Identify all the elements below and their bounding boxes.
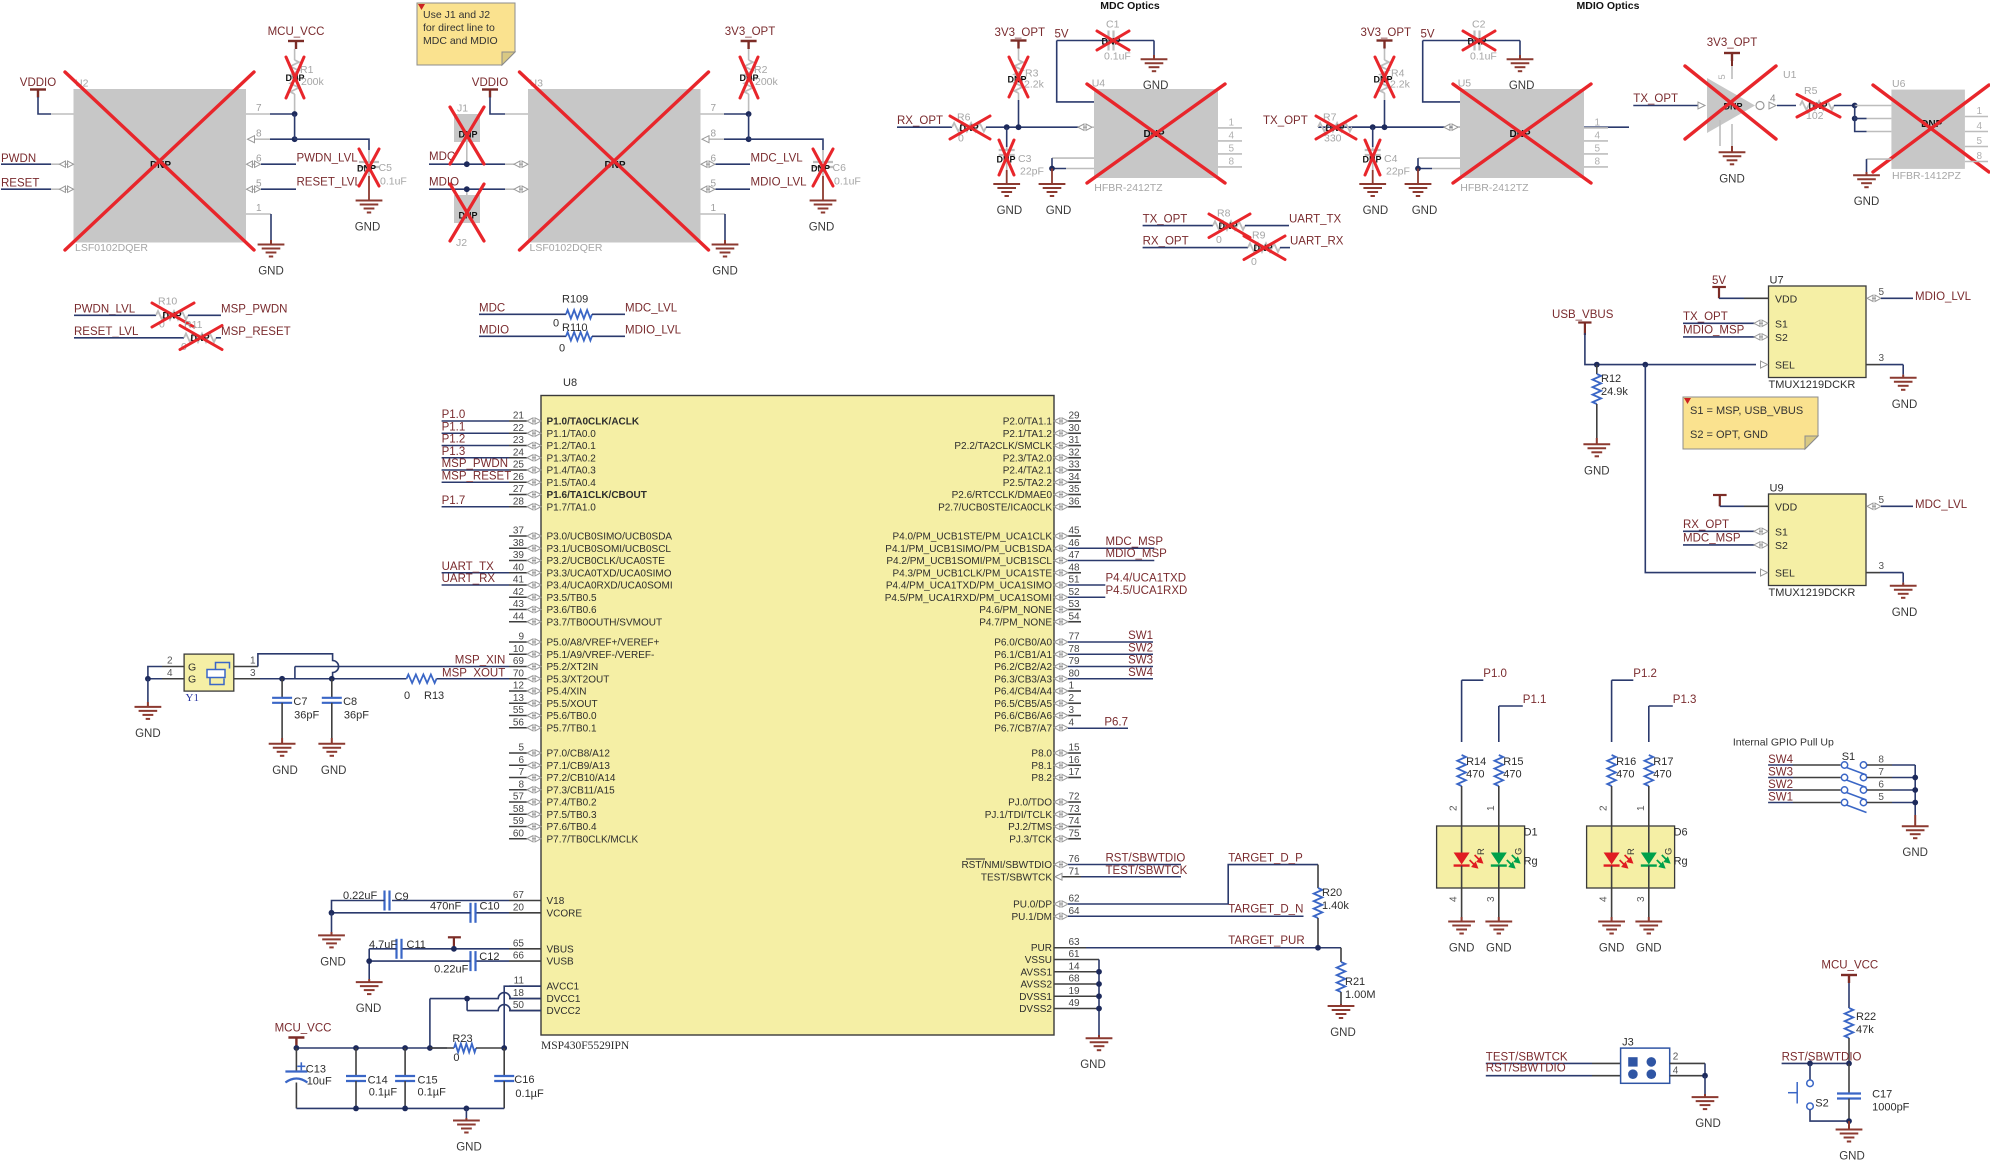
ground below S2/C17 xyxy=(1848,1121,1850,1129)
svg-text:UART_RX: UART_RX xyxy=(1290,236,1344,248)
svg-text:45: 45 xyxy=(1069,526,1081,537)
svg-text:26: 26 xyxy=(513,472,525,483)
svg-text:MDIO_MSP: MDIO_MSP xyxy=(1106,548,1168,560)
resistor R2 200k (DNP) xyxy=(748,49,750,60)
net label MDC_MSP (pin 46) xyxy=(1068,547,1154,549)
ground below C4 xyxy=(1372,170,1374,184)
svg-text:R15: R15 xyxy=(1503,756,1523,768)
svg-text:2: 2 xyxy=(167,656,173,667)
pin 49 DVSS2 of U8 xyxy=(1054,1008,1099,1010)
svg-text:MCU_VCC: MCU_VCC xyxy=(275,1023,332,1035)
pin 59 P7.6/TB0.4 of U8 xyxy=(509,826,527,828)
svg-text:MSP_PWDN: MSP_PWDN xyxy=(221,304,287,316)
wire AVCC1 to vertical rail xyxy=(504,986,541,1048)
svg-text:R13: R13 xyxy=(424,690,444,702)
svg-text:0.22uF: 0.22uF xyxy=(434,964,469,976)
svg-text:SEL: SEL xyxy=(1775,568,1795,580)
pin 68 AVSS2 of U8 xyxy=(1054,983,1099,985)
svg-text:57: 57 xyxy=(513,792,525,803)
net label P1.3 / wire xyxy=(1649,705,1673,707)
svg-text:32: 32 xyxy=(1069,447,1081,458)
svg-text:C8: C8 xyxy=(343,696,357,708)
svg-text:R110: R110 xyxy=(562,322,587,334)
svg-text:P7.2/CB10/A14: P7.2/CB10/A14 xyxy=(547,773,616,784)
svg-text:RST/SBWTDIO: RST/SBWTDIO xyxy=(1106,853,1186,865)
junction pin8 net xyxy=(292,136,298,142)
DNP cross over C1 xyxy=(1097,31,1129,50)
DNP cross over U3 xyxy=(520,72,709,250)
pin 22 P1.1/TA0.0 of U8 xyxy=(509,432,527,434)
pin 56 P5.7/TB0.1 of U8 xyxy=(509,727,527,729)
pin 55 P5.6/TB0.0 of U8 xyxy=(509,715,527,717)
svg-text:P1.2: P1.2 xyxy=(1633,668,1657,680)
resistor R20 1.40k xyxy=(1317,865,1319,888)
svg-text:15: 15 xyxy=(1069,743,1081,754)
svg-text:5: 5 xyxy=(1594,143,1600,154)
svg-text:GND: GND xyxy=(1695,1118,1721,1130)
svg-text:GND: GND xyxy=(1719,173,1745,185)
wire RX_OPT to S1 xyxy=(1683,530,1755,532)
svg-text:MSP_RESET: MSP_RESET xyxy=(221,326,291,338)
junction Y1 ground branch xyxy=(145,676,151,682)
svg-text:5: 5 xyxy=(1878,792,1884,803)
wire MDIO_MSP to S2 xyxy=(1683,336,1755,338)
DNP cross over R1 xyxy=(286,57,304,98)
pin 34 P2.5/TA2.2 of U8 xyxy=(1068,481,1081,483)
ground below Y1 xyxy=(147,679,149,702)
svg-text:GND: GND xyxy=(258,266,284,278)
resistor R5 102 (DNP) xyxy=(1800,101,1834,110)
right pins 1/4/5/8 of U5 xyxy=(1584,127,1608,129)
svg-text:P3.1/UCB0SOMI/UCB0SCL: P3.1/UCB0SOMI/UCB0SCL xyxy=(547,544,672,555)
svg-text:MDC Optics: MDC Optics xyxy=(1100,0,1160,12)
svg-text:SW4: SW4 xyxy=(1128,667,1154,679)
svg-text:GND: GND xyxy=(1584,465,1610,477)
svg-text:P3.0/UCB0SIMO/UCB0SDA: P3.0/UCB0SIMO/UCB0SDA xyxy=(547,532,673,543)
pin 38 P3.1/UCB0SOMI/UCB0SCL of U8 xyxy=(509,547,527,549)
optical receiver U4 HFBR-2412TZ (DNP) xyxy=(1094,89,1218,178)
svg-text:22pF: 22pF xyxy=(1020,166,1044,178)
svg-text:S2: S2 xyxy=(1815,1098,1828,1110)
net label MSP_PWDN / wire to U8 xyxy=(442,469,509,471)
DNP cross over R9 xyxy=(1244,236,1285,260)
pin glyph RESET (U2 A2) xyxy=(60,186,74,192)
DNP cross over C5 xyxy=(359,149,379,186)
wire power flag to VDD (U9) xyxy=(1720,505,1744,507)
svg-text:C3: C3 xyxy=(1018,153,1032,165)
svg-text:P1.6/TA1CLK/CBOUT: P1.6/TA1CLK/CBOUT xyxy=(547,490,647,501)
junction cap branch xyxy=(1004,124,1010,130)
svg-text:470: 470 xyxy=(1653,769,1671,781)
wire RST/SBWTDIO to J3 pin 3 xyxy=(1486,1075,1592,1077)
svg-text:GND: GND xyxy=(456,1142,482,1154)
wire TX_OPT to U1 xyxy=(1633,105,1699,107)
svg-text:SW2: SW2 xyxy=(1128,642,1153,654)
svg-text:HFBR-2412TZ: HFBR-2412TZ xyxy=(1094,182,1163,194)
svg-text:PWDN_LVL: PWDN_LVL xyxy=(74,304,136,316)
pin 79 P6.2/CB2/A2 of U8 xyxy=(1054,663,1068,669)
bare power flag (U9 VDD) xyxy=(1713,495,1727,506)
svg-text:U8: U8 xyxy=(563,377,577,389)
pin 76 RST/NMI/SBWTDIO of U8 xyxy=(1054,861,1068,867)
pin 26 P1.5/TA0.4 of U8 xyxy=(509,481,527,483)
svg-text:13: 13 xyxy=(513,693,525,704)
svg-text:P7.7/TB0CLK/MCLK: P7.7/TB0CLK/MCLK xyxy=(547,834,639,845)
wire junctions to optic input xyxy=(1007,126,1079,128)
capacitor C7 36pF xyxy=(281,679,283,698)
svg-text:P3.5/TB0.5: P3.5/TB0.5 xyxy=(547,593,597,604)
svg-text:75: 75 xyxy=(1069,828,1081,839)
pin 64 PU.1/DM of U8 xyxy=(1054,913,1068,919)
junction U3 pin7/R2 xyxy=(746,111,752,117)
wire 3V3_OPT to U1 power pin xyxy=(1731,61,1733,66)
svg-text:GND: GND xyxy=(1080,1059,1106,1071)
svg-text:1.00M: 1.00M xyxy=(1345,989,1376,1001)
svg-text:0.1uF: 0.1uF xyxy=(834,176,861,188)
net label MSP_XIN / wire xyxy=(295,666,509,668)
svg-text:1: 1 xyxy=(1594,117,1600,128)
svg-text:MDC_LVL: MDC_LVL xyxy=(625,303,678,315)
net label SW1 / wire from U8 xyxy=(1068,641,1153,643)
pin 11 AVCC1 of U8 xyxy=(509,985,541,987)
svg-text:72: 72 xyxy=(1069,792,1081,803)
pin 70 P5.3/XT2OUT of U8 xyxy=(509,678,527,680)
svg-text:14: 14 xyxy=(1069,961,1081,972)
capacitor C9 0.22uF on V18 xyxy=(392,900,509,902)
net label MDIO_MSP (pin 47) xyxy=(1068,560,1154,562)
ground below R21 xyxy=(1340,1004,1342,1006)
resistor R12 24.9k xyxy=(1596,365,1598,374)
svg-text:2: 2 xyxy=(1599,805,1610,811)
note: Use J1 and J2 for direct line to MDC and MDIO xyxy=(417,3,515,65)
junction U3 pin8 net xyxy=(746,136,752,142)
svg-text:7: 7 xyxy=(710,103,716,114)
jumper J2 (DNP) xyxy=(454,195,480,223)
svg-text:GND: GND xyxy=(809,222,835,234)
svg-text:P6.4/CB4/A4: P6.4/CB4/A4 xyxy=(994,687,1052,698)
pin 42 P3.5/TB0.5 of U8 xyxy=(509,596,527,598)
svg-text:78: 78 xyxy=(1069,644,1081,655)
wire pin7 to pin8 junction xyxy=(294,114,296,139)
svg-text:P7.3/CB11/A15: P7.3/CB11/A15 xyxy=(547,785,616,796)
svg-text:RST/SBWTDIO: RST/SBWTDIO xyxy=(1486,1063,1566,1075)
pin 36 P2.7/UCB0STE/ICA0CLK of U8 xyxy=(1068,506,1081,508)
VSS ground bus xyxy=(1098,960,1100,1036)
ground below U4 xyxy=(1039,184,1066,196)
pin 57 P7.4/TB0.2 of U8 xyxy=(509,801,527,803)
svg-text:74: 74 xyxy=(1069,816,1081,827)
pin 4 P6.7/CB7/A7 of U8 xyxy=(1054,725,1068,731)
svg-text:P7.5/TB0.3: P7.5/TB0.3 xyxy=(547,810,597,821)
svg-text:P6.7/CB7/A7: P6.7/CB7/A7 xyxy=(994,723,1052,734)
pin 33 P2.4/TA2.1 of U8 xyxy=(1068,469,1081,471)
net label P1.7 / wire to U8 xyxy=(442,506,509,508)
svg-text:36pF: 36pF xyxy=(294,710,319,722)
wire junctions to optic input xyxy=(1373,126,1445,128)
svg-text:P2.7/UCB0STE/ICA0CLK: P2.7/UCB0STE/ICA0CLK xyxy=(938,502,1052,513)
svg-text:4: 4 xyxy=(1069,717,1075,728)
svg-text:4: 4 xyxy=(1599,896,1610,902)
optical transmitter U6 HFBR-1412PZ (DNP) xyxy=(1891,90,1965,169)
wire U3 pin8 to C6 xyxy=(749,139,823,150)
ground below C1 xyxy=(1153,41,1155,56)
svg-text:P4.4/PM_UCA1TXD/PM_UCA1SIMO: P4.4/PM_UCA1TXD/PM_UCA1SIMO xyxy=(886,581,1052,592)
svg-text:23: 23 xyxy=(513,435,525,446)
svg-text:C15: C15 xyxy=(418,1075,438,1087)
svg-text:P4.6/PM_NONE: P4.6/PM_NONE xyxy=(979,605,1052,616)
pin 8 P7.3/CB11/A15 of U8 xyxy=(509,789,527,791)
svg-text:S2: S2 xyxy=(1775,332,1788,344)
DNP cross over R3 xyxy=(1009,57,1028,97)
svg-text:73: 73 xyxy=(1069,804,1081,815)
pin 19 DVSS1 of U8 xyxy=(1054,995,1099,997)
svg-text:P2.0/TA1.1: P2.0/TA1.1 xyxy=(1003,417,1053,428)
capacitor C8 36pF xyxy=(331,679,333,698)
DNP cross over U4 xyxy=(1087,84,1225,183)
svg-text:Rg: Rg xyxy=(1674,856,1688,868)
wire USB_VBUS down to SEL rail xyxy=(1585,333,1756,365)
svg-text:56: 56 xyxy=(513,717,525,728)
svg-text:R17: R17 xyxy=(1653,756,1673,768)
svg-text:P3.3/UCA0TXD/UCA0SIMO: P3.3/UCA0TXD/UCA0SIMO xyxy=(547,568,672,579)
junction C7 xyxy=(279,676,285,682)
svg-text:TEST/SBWTCK: TEST/SBWTCK xyxy=(981,872,1052,883)
pin 58 P7.5/TB0.3 of U8 xyxy=(509,813,527,815)
svg-text:P6.0/CB0/A0: P6.0/CB0/A0 xyxy=(994,638,1052,649)
svg-text:GND: GND xyxy=(272,765,298,777)
svg-text:R22: R22 xyxy=(1856,1011,1876,1023)
capacitor C15 0.1uF xyxy=(404,1048,406,1076)
junction pullup branch xyxy=(1016,124,1022,130)
svg-text:P6.6/CB6/A6: P6.6/CB6/A6 xyxy=(994,711,1052,722)
svg-text:MDIO: MDIO xyxy=(429,177,459,189)
net TARGET_D_N wire from PU.1/DM xyxy=(1068,915,1304,917)
svg-text:UART_TX: UART_TX xyxy=(1289,214,1342,226)
svg-text:P3.2/UCB0CLK/UCA0STE: P3.2/UCB0CLK/UCA0STE xyxy=(547,556,666,567)
capacitor C10 470nF on VCORE xyxy=(477,912,510,914)
svg-text:J1: J1 xyxy=(457,103,468,115)
svg-text:R5: R5 xyxy=(1804,85,1818,97)
wire J3 pins to ground xyxy=(1704,1063,1706,1075)
svg-text:5: 5 xyxy=(518,743,524,754)
pin 28 P1.7/TA1.0 of U8 xyxy=(509,506,527,508)
svg-text:P7.6/TB0.4: P7.6/TB0.4 xyxy=(547,822,597,833)
ground below S1 xyxy=(1914,815,1916,826)
svg-text:GND: GND xyxy=(1892,399,1918,411)
svg-text:MSP_RESET: MSP_RESET xyxy=(442,470,512,482)
red LED element of D6 xyxy=(1611,826,1613,853)
wire RST/SBWTDIO to R22/C17 xyxy=(1782,1062,1849,1064)
svg-text:0: 0 xyxy=(453,1052,459,1064)
pin 44 P3.7/TB0OUTH/SVMOUT of U8 xyxy=(509,621,527,623)
svg-text:P3.6/TB0.6: P3.6/TB0.6 xyxy=(547,605,597,616)
svg-text:R: R xyxy=(1476,848,1487,855)
net label SW3 / wire from U8 xyxy=(1068,666,1153,668)
net label P1.3 / wire to U8 xyxy=(442,457,509,459)
DNP cross over U6 xyxy=(1873,85,1989,172)
svg-text:P8.0: P8.0 xyxy=(1031,749,1052,760)
svg-text:C14: C14 xyxy=(368,1075,388,1087)
svg-text:80: 80 xyxy=(1069,668,1081,679)
pin 48 P4.3/PM_UCB1CLK/PM_UCA1STE of U8 xyxy=(1068,572,1081,574)
net label P1.0 / wire xyxy=(1462,679,1484,681)
pin 30 P2.1/TA1.2 of U8 xyxy=(1068,432,1081,434)
svg-text:33: 33 xyxy=(1069,460,1081,471)
pin 67 V18 of U8 xyxy=(509,900,541,902)
svg-text:GND: GND xyxy=(1412,205,1438,217)
svg-text:25: 25 xyxy=(513,460,525,471)
DNP cross over J1 xyxy=(450,107,484,164)
svg-text:54: 54 xyxy=(1069,611,1081,622)
pin 17 P8.2 of U8 xyxy=(1068,777,1081,779)
DNP cross over R6 xyxy=(950,116,990,139)
right pins 1/4/5/8 of U4 xyxy=(1218,127,1242,129)
svg-text:P1.1: P1.1 xyxy=(442,421,466,433)
resistor R22 47k xyxy=(1845,1008,1854,1038)
wire 5V to cap and U-power pin xyxy=(1057,40,1107,42)
pin 29 P2.0/TA1.1 of U8 xyxy=(1068,420,1081,422)
pin 74 PJ.2/TMS of U8 xyxy=(1068,826,1081,828)
net label P6.7 / wire from U8 xyxy=(1068,727,1128,729)
svg-text:1: 1 xyxy=(710,203,716,214)
wire TEST/SBWTCK to J3 pin 1 xyxy=(1486,1062,1592,1064)
svg-text:P4.5/UCA1RXD: P4.5/UCA1RXD xyxy=(1106,585,1188,597)
pin glyph optic input xyxy=(1444,124,1458,130)
svg-text:55: 55 xyxy=(513,705,525,716)
svg-text:5V: 5V xyxy=(1420,29,1434,41)
wire U3 pin7 to pin8 junction xyxy=(748,114,750,139)
svg-text:470: 470 xyxy=(1503,769,1521,781)
svg-text:U9: U9 xyxy=(1770,483,1784,495)
junction DVCC2 riser on DVCC1 wire xyxy=(464,996,470,1002)
svg-text:30: 30 xyxy=(1069,423,1081,434)
pin 31 P2.2/TA2CLK/SMCLK of U8 xyxy=(1068,445,1081,447)
svg-text:RESET_LVL: RESET_LVL xyxy=(297,177,362,189)
push button S2 xyxy=(1809,1063,1811,1079)
pin 73 PJ.1/TDI/TCLK of U8 xyxy=(1068,813,1081,815)
svg-text:GND: GND xyxy=(712,266,738,278)
svg-text:P1.0/TA0CLK/ACLK: P1.0/TA0CLK/ACLK xyxy=(547,417,640,428)
svg-text:470nF: 470nF xyxy=(430,901,461,913)
svg-text:TMUX1219DCKR: TMUX1219DCKR xyxy=(1769,379,1856,391)
svg-text:3: 3 xyxy=(1636,896,1647,902)
ground below C2 xyxy=(1519,41,1521,56)
svg-text:42: 42 xyxy=(513,587,525,598)
main MCU_VCC rail xyxy=(295,1046,297,1049)
svg-text:S1 = MSP, USB_VBUS: S1 = MSP, USB_VBUS xyxy=(1690,405,1803,417)
wire DVCC2 with hop over AVCC rail xyxy=(467,1005,541,1011)
ground below U1 xyxy=(1719,152,1746,164)
svg-text:4: 4 xyxy=(1594,130,1600,141)
svg-text:59: 59 xyxy=(513,816,525,827)
svg-text:1: 1 xyxy=(256,203,262,214)
net label UART_TX / wire to U8 xyxy=(442,572,509,574)
svg-text:GND: GND xyxy=(1892,607,1918,619)
DNP cross over J2 xyxy=(450,184,484,241)
pin 13 P5.5/XOUT of U8 xyxy=(509,702,527,704)
dual LED D6 xyxy=(1587,826,1675,888)
svg-text:22pF: 22pF xyxy=(1386,166,1410,178)
svg-text:16: 16 xyxy=(1069,755,1081,766)
svg-text:C5: C5 xyxy=(379,162,393,174)
svg-text:MSP_XOUT: MSP_XOUT xyxy=(442,668,505,680)
svg-text:5V: 5V xyxy=(1054,29,1068,41)
ground below U7 pin 3 xyxy=(1890,378,1917,390)
wire VDDIO to U3 pin xyxy=(490,97,505,114)
svg-text:UART_TX: UART_TX xyxy=(442,561,495,573)
net TARGET_D_P wire from PU.0/DP xyxy=(1068,865,1318,904)
svg-text:P8.2: P8.2 xyxy=(1031,773,1052,784)
resistor R21 1.00M xyxy=(1340,948,1342,962)
pin 5 P7.0/CB8/A12 of U8 xyxy=(509,752,527,754)
capacitor C11 4.7uF on VBUS xyxy=(403,948,510,950)
net label UART_RX / wire to U8 xyxy=(442,584,509,586)
svg-text:MDIO_LVL: MDIO_LVL xyxy=(1915,291,1972,303)
svg-text:P4.4/UCA1TXD: P4.4/UCA1TXD xyxy=(1106,573,1187,585)
pin 77 P6.0/CB0/A0 of U8 xyxy=(1054,639,1068,645)
svg-text:76: 76 xyxy=(1069,854,1081,865)
svg-text:24.9k: 24.9k xyxy=(1601,386,1628,398)
wire Y1 pin3 row with C7/C8 junctions xyxy=(260,678,407,680)
svg-text:1: 1 xyxy=(1069,681,1075,692)
svg-text:2.2k: 2.2k xyxy=(1024,79,1045,91)
svg-text:R: R xyxy=(1626,848,1637,855)
optical receiver U5 HFBR-2412TZ (DNP) xyxy=(1460,89,1584,178)
svg-text:P7.0/CB8/A12: P7.0/CB8/A12 xyxy=(547,749,611,760)
svg-text:GND: GND xyxy=(1449,943,1475,955)
svg-text:GND: GND xyxy=(1330,1027,1356,1039)
wire MDIO xyxy=(429,188,505,190)
svg-text:7: 7 xyxy=(1878,767,1884,778)
svg-text:6: 6 xyxy=(518,755,524,766)
svg-text:DVCC1: DVCC1 xyxy=(547,994,581,1005)
svg-text:VDD: VDD xyxy=(1775,501,1798,513)
svg-text:1: 1 xyxy=(1636,805,1647,811)
capacitor C1 0.1uF (DNP) xyxy=(1109,31,1114,51)
net TARGET_PUR wire from PUR pin xyxy=(1086,947,1341,949)
svg-text:C11: C11 xyxy=(407,939,426,951)
dual LED D1 xyxy=(1437,826,1525,888)
svg-text:C16: C16 xyxy=(514,1074,534,1086)
svg-text:MDIO: MDIO xyxy=(479,325,509,337)
ground below C11/C12 xyxy=(368,979,370,982)
svg-text:P6.1/CB1/A1: P6.1/CB1/A1 xyxy=(994,650,1052,661)
input glyph U7 SEL xyxy=(1761,361,1768,368)
junction U9 SEL branch xyxy=(1642,362,1648,368)
svg-text:RST/NMI/SBWTDIO: RST/NMI/SBWTDIO xyxy=(961,860,1052,871)
junction MDC / J1 xyxy=(464,161,470,167)
junction U6 input row2 xyxy=(1852,116,1858,122)
resistor R7 330 (DNP) xyxy=(1318,123,1352,132)
svg-text:RESET_LVL: RESET_LVL xyxy=(74,326,139,338)
pin glyph PWDN (U2 A1) xyxy=(60,161,74,167)
pin 15 P8.0 of U8 xyxy=(1068,752,1081,754)
capacitor C6 0.1uF (DNP) xyxy=(822,150,824,162)
svg-text:GND: GND xyxy=(320,956,346,968)
DNP cross over R4 xyxy=(1375,57,1394,97)
svg-text:R14: R14 xyxy=(1466,756,1486,768)
svg-text:MDC_MSP: MDC_MSP xyxy=(1106,536,1164,548)
pin 60 P7.7/TB0CLK/MCLK of U8 xyxy=(509,838,527,840)
svg-text:P5.5/XOUT: P5.5/XOUT xyxy=(547,699,598,710)
ground below J3 xyxy=(1692,1097,1719,1109)
svg-text:PJ.1/TDI/TCLK: PJ.1/TDI/TCLK xyxy=(985,810,1053,821)
svg-text:R20: R20 xyxy=(1322,887,1342,899)
svg-text:1: 1 xyxy=(250,656,256,667)
svg-text:R8: R8 xyxy=(1217,208,1231,220)
svg-text:MDIO_LVL: MDIO_LVL xyxy=(751,177,808,189)
svg-text:SW3: SW3 xyxy=(1128,655,1153,667)
